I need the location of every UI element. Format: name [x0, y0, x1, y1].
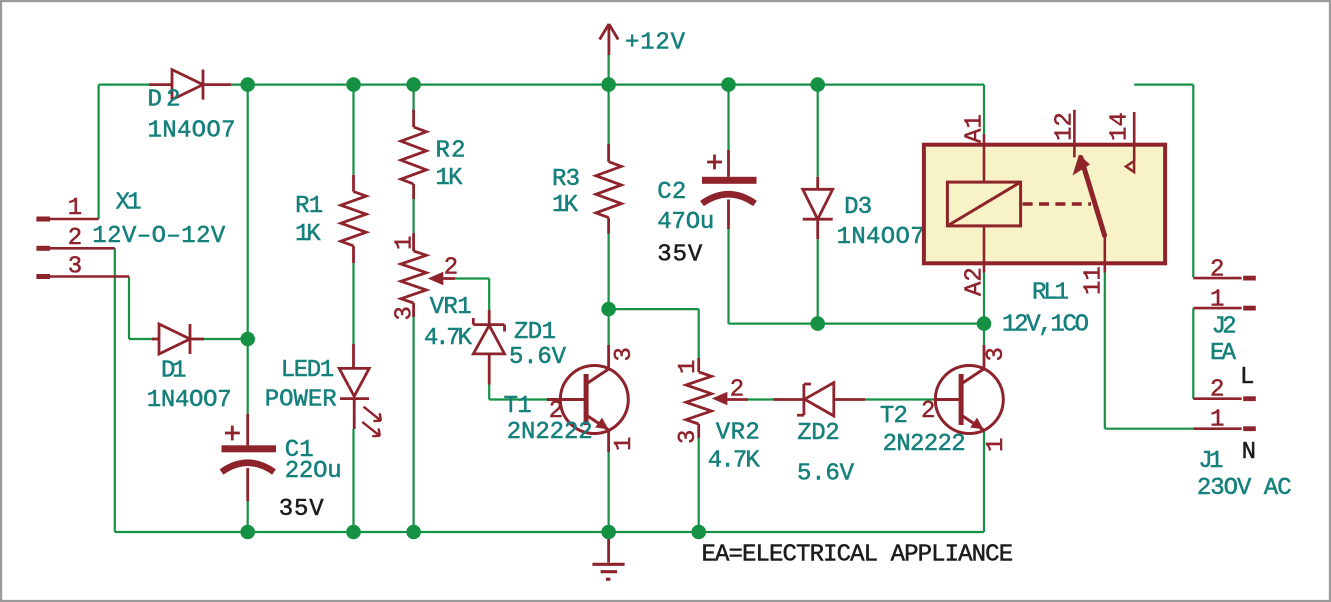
- wire R2 top: [413, 85, 415, 110]
- svg-text:LED1: LED1: [281, 357, 335, 384]
- svg-text:R2: R2: [436, 138, 466, 165]
- svg-text:X1: X1: [116, 190, 142, 217]
- svg-text:3: 3: [611, 347, 638, 361]
- svg-text:14: 14: [1107, 112, 1134, 141]
- svg-text:35V: 35V: [279, 496, 325, 523]
- node bottom rail / C1: [240, 525, 255, 540]
- wire R3 bottom to collector node: [607, 234, 609, 310]
- connector J2 pin 1: [1193, 307, 1241, 310]
- svg-text:3: 3: [391, 306, 418, 320]
- node rail2 / D3: [810, 316, 825, 331]
- svg-text:+12V: +12V: [625, 30, 686, 57]
- node top rail / R1: [346, 77, 361, 92]
- svg-text:2: 2: [444, 255, 458, 282]
- svg-text:12: 12: [1052, 112, 1079, 141]
- relay pin 12: [1073, 110, 1076, 158]
- svg-text:23OV AC: 23OV AC: [1197, 475, 1292, 502]
- svg-text:5.6V: 5.6V: [509, 344, 567, 371]
- svg-text:ZD2: ZD2: [797, 420, 840, 447]
- svg-text:1N4OO7: 1N4OO7: [147, 387, 232, 414]
- svg-text:1: 1: [983, 438, 1010, 452]
- wire D1 cathode to node: [204, 338, 248, 340]
- svg-text:1K: 1K: [436, 165, 464, 192]
- capacitor C2: [727, 150, 730, 177]
- potentiometer VR1: [412, 233, 415, 251]
- resistor R2: [412, 110, 415, 127]
- svg-text:1: 1: [391, 236, 418, 250]
- wire VR1 pin3 bottom: [413, 317, 415, 532]
- ground symbol: [607, 539, 610, 563]
- svg-text:N: N: [1242, 439, 1256, 466]
- svg-text:1: 1: [1210, 287, 1224, 314]
- node top rail / +12V: [601, 77, 616, 92]
- svg-text:D3: D3: [844, 194, 872, 221]
- node D1-C1 junction: [240, 332, 255, 347]
- svg-text:5.6V: 5.6V: [797, 461, 855, 488]
- svg-text:EA: EA: [1210, 340, 1237, 367]
- svg-text:RL1: RL1: [1032, 280, 1069, 307]
- svg-text:T2: T2: [880, 403, 908, 430]
- transistor T1: [547, 398, 561, 401]
- wire R1 top: [352, 85, 354, 175]
- svg-text:2: 2: [68, 225, 82, 252]
- svg-text:R1: R1: [295, 193, 323, 220]
- diode D3: [816, 177, 819, 190]
- svg-text:12V–O–12V: 12V–O–12V: [92, 223, 226, 250]
- wire T2 collector: [983, 324, 985, 345]
- relay pin 14: [1133, 112, 1136, 161]
- wire X1 pin2 riser to bottom rail: [114, 248, 116, 532]
- svg-text:2: 2: [1210, 257, 1224, 284]
- svg-text:A2: A2: [962, 267, 989, 296]
- wire R2 to VR1: [413, 199, 415, 233]
- wire C1 branch upper: [247, 85, 249, 339]
- relay switch lever: [1081, 158, 1105, 236]
- diode D2: [149, 83, 172, 86]
- connector X1 pin 1: [36, 217, 50, 222]
- svg-text:12V,1CO: 12V,1CO: [1002, 312, 1089, 339]
- transistor T2: [934, 398, 937, 401]
- connector X1 pin 2: [36, 246, 50, 251]
- svg-text:D1: D1: [161, 358, 187, 385]
- svg-text:J1: J1: [1198, 448, 1223, 475]
- wire relay pin11 to J1 pin1: [1104, 273, 1106, 429]
- wire R3 top: [607, 85, 609, 144]
- svg-text:A1: A1: [962, 114, 989, 143]
- node top rail / D3: [810, 77, 825, 92]
- node top rail / R2: [406, 77, 421, 92]
- wire X1 pin1 to D2 riser: [97, 85, 99, 219]
- wire relay 14 to J2 pin2: [1134, 83, 1193, 85]
- relay pin A2: [983, 226, 986, 273]
- wire ZD2 to T2 base: [865, 398, 936, 400]
- zener ZD2: [774, 398, 804, 401]
- svg-text:R3: R3: [552, 166, 580, 193]
- wire collector node to VR2: [609, 308, 699, 310]
- svg-text:VR1: VR1: [430, 294, 472, 321]
- capacitor C1: [246, 414, 249, 446]
- relay actuation dashed link: [1023, 202, 1091, 205]
- svg-text:11: 11: [1081, 266, 1108, 295]
- svg-text:T1: T1: [504, 393, 532, 420]
- LED LED1: [352, 344, 355, 368]
- svg-text:2: 2: [730, 377, 744, 404]
- svg-text:L: L: [1240, 364, 1254, 391]
- wire ZD1 to T1 base: [488, 385, 490, 400]
- svg-text:1: 1: [1210, 407, 1224, 434]
- svg-text:3: 3: [983, 347, 1010, 361]
- svg-text:C2: C2: [657, 179, 686, 206]
- wire C2 top: [727, 85, 729, 150]
- svg-text:3: 3: [675, 430, 702, 444]
- svg-text:VR2: VR2: [716, 420, 760, 447]
- wire bottom ground rail: [115, 531, 984, 533]
- wire J2 pin1 to J1 pin2: [1192, 308, 1194, 399]
- relay contact 14 triangle: [1126, 161, 1134, 172]
- svg-text:1K: 1K: [295, 221, 321, 248]
- wire A2 to rail2: [983, 273, 985, 324]
- relay pin 11: [1104, 236, 1107, 273]
- node top rail / C1 branch: [240, 77, 255, 92]
- node bottom rail / ground: [601, 525, 616, 540]
- connector J1 pin 2: [1193, 397, 1241, 400]
- wire D3 top: [817, 85, 819, 177]
- wire VR2 bottom: [698, 438, 700, 532]
- svg-text:J2: J2: [1212, 313, 1237, 340]
- svg-text:2: 2: [921, 398, 935, 425]
- svg-text:EA=ELECTRICAL APPLIANCE: EA=ELECTRICAL APPLIANCE: [702, 542, 1014, 569]
- svg-text:1: 1: [68, 195, 82, 222]
- wire T1 emitter to rail: [607, 452, 609, 532]
- wire T2 emitter to rail: [983, 431, 985, 532]
- svg-text:POWER: POWER: [265, 387, 337, 414]
- svg-text:22Ou: 22Ou: [285, 458, 342, 485]
- wire X1 pin3 to D1: [128, 277, 130, 340]
- zener ZD1: [488, 310, 491, 325]
- resistor R3: [607, 144, 610, 162]
- svg-text:2N2222: 2N2222: [883, 431, 966, 458]
- node top rail / C2: [721, 77, 736, 92]
- svg-text:1: 1: [675, 360, 702, 374]
- node bottom rail / VR2: [691, 525, 706, 540]
- svg-text:3: 3: [68, 254, 82, 281]
- svg-text:1: 1: [611, 437, 638, 451]
- svg-text:1K: 1K: [552, 192, 579, 219]
- relay coil: [947, 182, 1020, 226]
- wire D3 bottom: [817, 239, 819, 324]
- svg-text:ZD1: ZD1: [514, 319, 556, 346]
- connector J2 pin 2: [1193, 277, 1241, 280]
- svg-text:4.7K: 4.7K: [708, 448, 761, 475]
- wire +12V stem: [607, 55, 609, 85]
- svg-text:1N4OO7: 1N4OO7: [148, 118, 236, 145]
- wire T1 collector: [607, 309, 609, 345]
- wire rail2 C2-D3-A2: [729, 323, 985, 325]
- node T1 collector: [601, 302, 616, 317]
- svg-text:2N2222: 2N2222: [507, 419, 593, 446]
- wire C1 bottom: [247, 501, 249, 532]
- connector J1 pin 1: [1193, 427, 1241, 430]
- svg-text:4.7K: 4.7K: [424, 325, 473, 352]
- power +12V symbol: [608, 24, 611, 55]
- wire VR2 wiper tail: [748, 398, 774, 400]
- wire R1 to LED1: [352, 263, 354, 344]
- node rail2 / A2 / T2 collector: [977, 316, 992, 331]
- resistor R1: [352, 175, 355, 192]
- relay pin A1: [983, 134, 986, 182]
- svg-text:1N4OO7: 1N4OO7: [837, 224, 925, 251]
- node bottom rail / VR1: [406, 525, 421, 540]
- svg-text:35V: 35V: [657, 242, 703, 269]
- diode D1: [152, 338, 159, 341]
- wire LED1 bottom: [352, 429, 354, 532]
- relay RL1 body: [924, 145, 1165, 264]
- wire C1 branch middle: [247, 339, 249, 414]
- node bottom rail / LED1: [346, 525, 361, 540]
- svg-text:47Ou: 47Ou: [657, 209, 714, 236]
- wire top +12V rail: [231, 83, 984, 85]
- potentiometer VR2: [697, 358, 700, 372]
- wire C2 bottom to rail2: [727, 229, 729, 324]
- svg-text:2: 2: [1210, 377, 1224, 404]
- connector X1 pin 3: [36, 274, 50, 279]
- wire relay A1 drop: [983, 85, 985, 134]
- wire VR1 wiper to ZD1: [455, 277, 489, 279]
